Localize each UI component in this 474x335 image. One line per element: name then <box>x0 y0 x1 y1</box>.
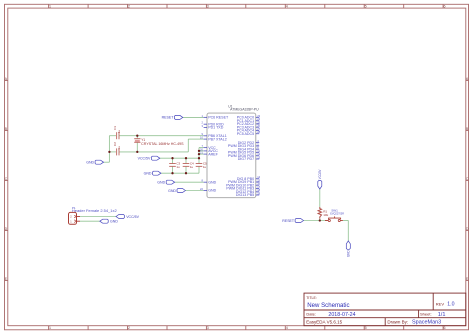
junction node <box>185 172 187 174</box>
wire C5 bottom lead <box>198 167 200 174</box>
svg-text:6: 6 <box>444 326 446 330</box>
junction node <box>171 157 173 159</box>
U1 pin 1 PC6 RESET <box>201 114 229 120</box>
ground flag GND (header) <box>100 219 108 223</box>
wire GND to pin8 <box>175 181 204 183</box>
wire RESET to SW1 <box>304 220 328 222</box>
wire to GND flag <box>104 161 110 163</box>
svg-text:1u: 1u <box>203 165 207 169</box>
svg-text:5: 5 <box>365 5 367 9</box>
svg-text:Date:: Date: <box>306 312 316 317</box>
title block text <box>306 296 454 326</box>
U1 pin 28 PC5 ADC5 <box>237 130 261 136</box>
svg-text:1u: 1u <box>176 165 180 169</box>
svg-text:PD1 TXD: PD1 TXD <box>208 126 224 130</box>
ground flag GND (pin8) <box>166 180 174 184</box>
junction node <box>136 151 138 153</box>
svg-text:Header Female 2.54_1x2: Header Female 2.54_1x2 <box>72 209 117 213</box>
junction node <box>185 157 187 159</box>
svg-text:3: 3 <box>207 326 209 330</box>
wire GND to pin22 <box>185 190 203 192</box>
U1 pin 6 DIG4 PD4 <box>238 146 259 152</box>
wire XTAL1 left of C1 <box>109 135 116 137</box>
wire RESET to pin1 <box>183 116 204 118</box>
svg-text:C: C <box>466 177 469 181</box>
svg-text:1u: 1u <box>117 130 121 134</box>
svg-text:1/1: 1/1 <box>438 312 446 318</box>
capacitor C2 <box>117 148 119 155</box>
svg-text:C1: C1 <box>113 126 117 130</box>
U1 pin 4 DIG2 PD2 <box>238 139 259 145</box>
U1 pin 2 PD0 RXD <box>201 121 224 127</box>
wire header pin2 to VCC flag <box>80 216 116 218</box>
U1 pin 12 PWM DIG6 PD6 <box>228 152 261 158</box>
U1 pin 15 PWM DIG9 PB1 <box>228 178 261 184</box>
svg-text:VCC/5V: VCC/5V <box>138 157 151 161</box>
net flag RESET (switch) <box>295 219 303 223</box>
svg-text:EasyEDA V5.6.15: EasyEDA V5.6.15 <box>306 319 342 324</box>
wire VCC/5V rail <box>160 157 199 159</box>
junction node <box>136 135 138 137</box>
wire C3 bottom lead <box>172 167 174 174</box>
svg-text:GND: GND <box>347 250 351 257</box>
wire C3 top lead <box>172 158 174 163</box>
svg-text:RESET: RESET <box>282 219 295 223</box>
ground flag GND (switch) <box>346 241 350 249</box>
U1 pin 20 AVCC <box>200 147 218 153</box>
connector P1 Header Female 2.54_1x2 <box>69 206 117 224</box>
capacitor C3 <box>169 164 176 167</box>
svg-text:PC5 ADC5: PC5 ADC5 <box>237 132 254 136</box>
svg-text:1: 1 <box>49 326 51 330</box>
wire SW1 to corner <box>343 220 348 222</box>
wire C4 top lead <box>185 158 187 163</box>
U1 pin 21 AREF <box>200 151 219 157</box>
wire to VCC pin7 <box>199 147 204 149</box>
svg-text:GND: GND <box>208 180 216 184</box>
svg-text:PC6 RESET: PC6 RESET <box>208 116 229 120</box>
svg-text:GND: GND <box>208 189 216 193</box>
wire C5 top lead <box>198 158 200 163</box>
svg-text:CRYSTAL 16MHz HC-49S: CRYSTAL 16MHz HC-49S <box>141 142 184 146</box>
svg-text:GND: GND <box>144 172 152 176</box>
U1 pin 8 GND <box>201 179 216 185</box>
U1 pin 24 PC1 ADC1 <box>237 117 261 123</box>
wire down to GND flag <box>347 221 349 241</box>
wire crystal top link <box>136 136 138 139</box>
svg-text:C: C <box>5 177 8 181</box>
title block <box>304 293 466 326</box>
svg-text:6: 6 <box>444 5 446 9</box>
net flag VCC/5V (header) <box>116 215 124 219</box>
net flag RESET at pin1 <box>174 115 182 119</box>
junction node <box>319 219 321 221</box>
net flag VCC/5V (reset pullup) <box>318 181 322 189</box>
U1 pin 18 DIG12 PB4 <box>236 188 261 194</box>
svg-text:3: 3 <box>207 5 209 9</box>
svg-text:AREF: AREF <box>208 152 218 156</box>
svg-text:4: 4 <box>286 326 288 330</box>
wire XTAL2 horizontal <box>119 151 188 153</box>
svg-text:New Schematic: New Schematic <box>307 302 350 309</box>
U1 pin 10 PB7 XTAL2 <box>200 136 227 142</box>
junction node <box>171 172 173 174</box>
svg-text:1u: 1u <box>117 146 121 150</box>
svg-text:C2: C2 <box>113 142 117 146</box>
U1 pin 5 PWM DIG3 PD3 <box>228 142 259 148</box>
svg-text:Drawn By:: Drawn By: <box>387 319 408 324</box>
wire crystal gnd vertical <box>108 136 110 163</box>
wire to AVCC pin20 <box>199 150 204 152</box>
svg-text:GND: GND <box>86 161 94 165</box>
U1 pin 23 PC0 ADC0 <box>237 114 261 120</box>
op IC body U1 <box>207 113 256 198</box>
svg-text:2018-07-24: 2018-07-24 <box>328 312 355 318</box>
svg-text:GND: GND <box>157 181 165 185</box>
svg-text:2: 2 <box>128 5 130 9</box>
U1 pin 7 VCC <box>201 144 216 150</box>
wire crystal bottom link <box>136 143 138 152</box>
wire XTAL2 to pin10 <box>188 138 203 140</box>
svg-text:DIG7 PD7: DIG7 PD7 <box>238 157 254 161</box>
switch SW1 EVQ22705R <box>325 209 344 222</box>
svg-text:EVQ22705R: EVQ22705R <box>330 212 344 216</box>
U1 pin 11 PWM DIG5 PD5 <box>228 149 261 155</box>
junction node <box>198 153 200 155</box>
ground flag GND (caps) <box>153 171 161 175</box>
svg-text:GND: GND <box>168 189 176 193</box>
capacitor C5 <box>196 164 203 167</box>
svg-text:DIG13 PB5: DIG13 PB5 <box>236 193 254 197</box>
wire VCC flag to R1 <box>319 189 321 207</box>
U1 pin 13 DIG7 PD7 <box>238 155 261 161</box>
svg-text:VCC/5V: VCC/5V <box>126 215 139 219</box>
svg-text:TITLE:: TITLE: <box>306 296 317 300</box>
svg-text:1.0: 1.0 <box>447 302 454 308</box>
svg-text:SpaceMan3: SpaceMan3 <box>412 320 441 326</box>
wire XTAL2 riser <box>187 139 189 152</box>
svg-text:PB7 XTAL2: PB7 XTAL2 <box>208 137 227 141</box>
svg-text:D: D <box>5 227 8 231</box>
capacitor C4 <box>183 164 190 167</box>
junction node <box>198 157 200 159</box>
svg-text:VCC/5V: VCC/5V <box>318 169 322 179</box>
U1 pin 17 PWM DIG11 PB3 <box>226 185 260 191</box>
svg-text:REV: REV <box>436 301 445 306</box>
svg-text:10k: 10k <box>323 213 328 217</box>
U1 pin 14 DIG 8 PB0 <box>237 175 261 181</box>
svg-text:ATMEGA328P-PU: ATMEGA328P-PU <box>230 108 259 112</box>
U1 pin 26 PC3 ADC3 <box>237 124 261 130</box>
wire VCC riser <box>198 148 200 159</box>
wire header pin1 to GND flag <box>80 220 100 222</box>
U1 pin 27 PC4 ADC4 <box>237 127 261 133</box>
U1 pin 16 PWM DIG10 PB2 <box>226 182 261 188</box>
net flag VCC/5V rail <box>151 156 159 160</box>
crystal Y1 <box>134 138 184 146</box>
svg-text:RESET: RESET <box>162 116 175 120</box>
capacitor C1 <box>117 132 119 139</box>
wire to AREF pin21 <box>199 153 204 155</box>
U1 pin 9 PB6 XTAL1 <box>201 132 226 138</box>
svg-text:Sheet:: Sheet: <box>420 312 432 317</box>
ground flag GND (pin22) <box>177 189 185 193</box>
svg-text:2: 2 <box>128 326 130 330</box>
resistor R1 10k <box>318 207 329 219</box>
junction node <box>108 151 110 153</box>
U1 pin 25 PC2 ADC2 <box>237 120 261 126</box>
wire XTAL2 left of C2 <box>109 151 116 153</box>
svg-text:1: 1 <box>49 5 51 9</box>
wire C4 bottom lead <box>185 167 187 174</box>
svg-text:5: 5 <box>365 326 367 330</box>
svg-text:4: 4 <box>286 5 288 9</box>
junction node <box>198 150 200 152</box>
svg-text:D: D <box>466 227 469 231</box>
wire XTAL1 to pin9 <box>119 135 203 137</box>
svg-text:1u: 1u <box>190 165 194 169</box>
U1 pin 22 GND <box>200 187 217 193</box>
wire cap GND rail <box>161 172 199 174</box>
wire R1 to node <box>319 219 321 221</box>
svg-text:GND: GND <box>110 220 118 224</box>
U1 pin 3 PD1 TXD <box>201 124 223 130</box>
U1 pin 19 DIG13 PB5 <box>236 191 261 197</box>
ground flag GND (crystal) <box>95 160 103 164</box>
